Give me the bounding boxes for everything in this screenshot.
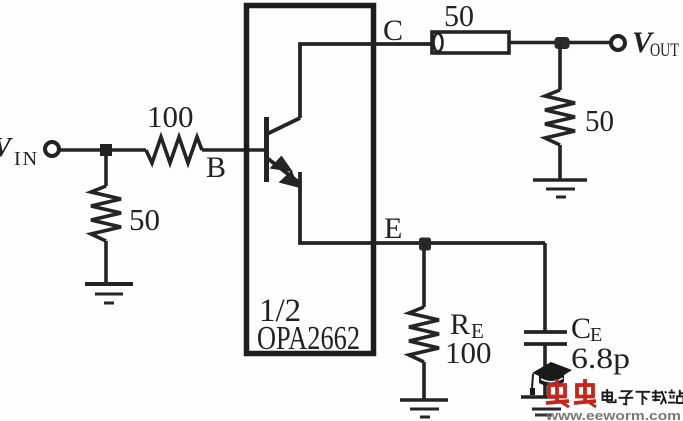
svg-text:IN: IN	[14, 148, 39, 170]
node output junction	[555, 37, 570, 49]
node VOUT label	[632, 26, 679, 61]
svg-text:100: 100	[445, 335, 492, 370]
wire down to CE	[543, 243, 547, 331]
svg-text:www.eeworm.com: www.eeworm.com	[545, 408, 681, 421]
char zhan	[668, 389, 683, 403]
node VIN label	[0, 132, 39, 170]
svg-text:C: C	[383, 14, 403, 47]
terminal VOUT	[611, 36, 625, 50]
resistor RE	[409, 307, 439, 362]
wire junction down	[558, 43, 562, 90]
svg-text:OUT: OUT	[650, 40, 679, 61]
svg-text:100: 100	[147, 99, 194, 134]
svg-text:50: 50	[129, 202, 160, 237]
wire R50load to ground	[558, 145, 562, 179]
transistor Q1	[267, 117, 302, 188]
wire node to R50in	[104, 155, 108, 186]
wire RE to ground	[422, 362, 426, 399]
wire CE to ground	[543, 345, 547, 397]
svg-text:50: 50	[444, 0, 474, 33]
node input junction	[100, 144, 112, 156]
char zai	[652, 390, 667, 405]
wire to VOUT	[509, 41, 610, 45]
char dian	[603, 389, 616, 402]
wire junction to RE	[422, 243, 426, 307]
char xia	[636, 392, 651, 405]
resistor 50 load	[545, 90, 575, 145]
svg-text:E: E	[384, 212, 402, 245]
capacitor CE	[524, 332, 567, 344]
svg-text:50: 50	[585, 103, 614, 138]
ground CE third bar	[535, 414, 552, 417]
wire emitter down and right	[300, 172, 545, 243]
ground CE	[521, 397, 561, 409]
resistor 50 input	[91, 186, 121, 241]
ground output	[533, 180, 587, 197]
ground RE	[400, 400, 448, 417]
wire input horizontal	[58, 148, 146, 152]
svg-text:B: B	[206, 151, 226, 184]
char zi	[619, 391, 634, 404]
watermark cap icon	[530, 362, 572, 395]
U1 value label 1/2 OPA2662	[257, 293, 360, 357]
op-amp U1 box OPA2662	[247, 6, 374, 354]
wire collector up	[300, 44, 432, 118]
wire R100 to base	[202, 148, 265, 152]
node emitter junction	[419, 238, 431, 251]
svg-text:C: C	[571, 312, 591, 345]
wire R50in to ground	[104, 241, 108, 283]
terminal VIN	[45, 142, 59, 156]
resistor 100	[146, 137, 202, 163]
svg-text:OPA2662: OPA2662	[257, 320, 360, 357]
watermark text chongchong (drawn)	[546, 379, 596, 407]
svg-text:6.8p: 6.8p	[571, 342, 630, 375]
ground input	[85, 284, 133, 303]
watermark text site name (drawn)	[603, 389, 683, 405]
resistor 50 series cylinder	[432, 0, 509, 53]
